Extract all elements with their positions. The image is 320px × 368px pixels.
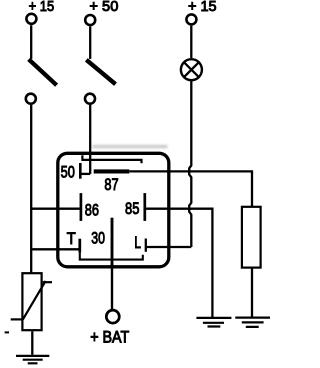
svg-text:50: 50 xyxy=(61,164,75,182)
svg-text:+ 15: + 15 xyxy=(188,0,217,15)
svg-text:T: T xyxy=(67,230,76,248)
wire pin 30 to +BAT terminal xyxy=(111,267,113,310)
wire R1 to ground xyxy=(251,268,253,317)
svg-text:+ 15: + 15 xyxy=(29,0,55,14)
wire S2 down into box to pin 50 xyxy=(89,105,91,174)
pin 30 bar xyxy=(111,218,114,267)
terminal +50 xyxy=(85,15,95,25)
svg-text:86: 86 xyxy=(85,202,99,220)
svg-text:30: 30 xyxy=(91,230,105,248)
wiper lead of R2 xyxy=(11,318,23,320)
wire S1 branch to pin 86 xyxy=(31,208,79,210)
ground (resistor R1) xyxy=(235,318,270,327)
svg-text:87: 87 xyxy=(104,177,118,195)
terminal +15 left xyxy=(26,14,36,24)
wire pin 87 to resistor R1 xyxy=(129,171,252,206)
terminal +15 right xyxy=(186,14,196,24)
minus mark xyxy=(5,331,9,333)
wire terminal to switch S1 xyxy=(30,25,32,59)
svg-text:+ BAT: + BAT xyxy=(90,329,130,347)
svg-text:+ 50: + 50 xyxy=(89,0,118,15)
switch S1 lower contact xyxy=(26,94,36,104)
pin 86 bar xyxy=(80,193,83,221)
pin L bar xyxy=(145,239,147,252)
pin 85 bar xyxy=(143,193,146,221)
terminal +BAT xyxy=(106,310,119,323)
ground (pin 85) xyxy=(196,318,231,327)
switch S1 blade xyxy=(29,59,57,85)
ground (sensor) xyxy=(16,356,49,363)
armature link from case to contact (pin 50 side) xyxy=(82,155,141,163)
pin T bar xyxy=(78,239,81,253)
switch S2 blade xyxy=(86,60,115,84)
pin 87 contact bar xyxy=(94,169,130,173)
wire pin T to temperature sensor xyxy=(31,248,78,250)
wire terminal to switch S2 xyxy=(89,26,91,59)
wire R2 to ground xyxy=(31,331,33,355)
wire S1 down to junctions and sensor xyxy=(30,105,32,273)
wire lamp down with two hops to pin L xyxy=(189,81,191,247)
svg-text:85: 85 xyxy=(125,201,139,219)
wire jog to pin 50 bar xyxy=(80,173,90,175)
relay box K1 xyxy=(58,153,169,266)
lamp E1 xyxy=(181,59,202,80)
resistor R1 (glow plug) xyxy=(242,207,261,268)
internal contact line from pin T xyxy=(80,253,143,260)
svg-text:L: L xyxy=(134,234,141,252)
wire pin L to lamp wire xyxy=(146,246,192,248)
temperature sensor R2 (variable resistor) xyxy=(22,273,41,330)
wire terminal to lamp xyxy=(190,26,192,58)
switch S2 lower contact xyxy=(85,94,95,104)
scan smudge artifact above relay box xyxy=(93,145,168,148)
wire pin 85 to ground xyxy=(146,209,212,317)
pin 50 bar xyxy=(79,163,82,179)
